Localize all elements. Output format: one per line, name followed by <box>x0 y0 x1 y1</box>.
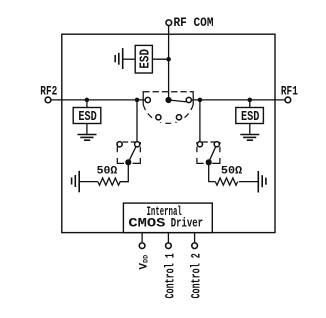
left shunt switch dashed box <box>117 142 140 163</box>
wire: RF COM vertical from terminal to series switch pole <box>168 25 170 100</box>
ESD block top (rotated) <box>135 45 153 73</box>
wire: Control 2 stub <box>194 233 196 243</box>
wire: left ESD box down to ground <box>86 123 88 134</box>
svg-text:CMOS: CMOS <box>128 216 165 231</box>
RF COM terminal <box>166 20 172 26</box>
wire: left shunt pole down then to resistor <box>121 162 128 181</box>
wire: top ESD to ground <box>123 58 136 60</box>
right shunt pole dot <box>206 159 212 165</box>
series switch spare contact lower-left <box>153 112 164 123</box>
wire: right shunt drop from RF1 line <box>199 100 201 144</box>
left shunt switch blade (closed to RF2 throw) <box>128 145 136 162</box>
wire: left shunt drop from RF2 line <box>136 100 138 144</box>
svg-text:RF2: RF2 <box>40 84 57 99</box>
svg-text:ESD: ESD <box>241 109 259 125</box>
series switch throw contact left (RF2) <box>145 97 150 102</box>
wire: top ESD to RF COM line <box>152 58 168 60</box>
svg-text:50Ω: 50Ω <box>221 166 243 178</box>
junction dot on RF1 line at right ESD <box>248 98 253 103</box>
VDD terminal <box>139 243 145 249</box>
wire: RF1 junction down to right ESD box <box>249 100 251 108</box>
ground (below right ESD) <box>240 135 259 141</box>
wire: right resistor to ground <box>239 181 258 183</box>
series switch spare contact lower-right <box>174 112 185 123</box>
svg-text:Control 2: Control 2 <box>189 253 204 298</box>
ground (sideways, top-left of top ESD) <box>115 48 123 69</box>
svg-text:50Ω: 50Ω <box>97 166 118 178</box>
wire: RF2 junction down to left ESD box <box>86 100 88 108</box>
wire: Control 1 stub <box>167 233 169 243</box>
ground (sideways, right of right 50ohm resistor) <box>258 171 266 193</box>
ground (sideways, left of left 50ohm resistor) <box>72 171 80 193</box>
Control 1 terminal <box>166 243 172 249</box>
wire: RF2 horizontal line <box>51 99 146 101</box>
svg-text:ESD: ESD <box>138 49 154 69</box>
RF2 terminal <box>45 97 51 103</box>
left shunt pole dot <box>125 159 131 165</box>
ESD block right <box>236 108 264 125</box>
Internal CMOS Driver block <box>123 203 212 233</box>
svg-text:Driver: Driver <box>171 216 203 231</box>
junction dot on RF COM line at top ESD <box>166 57 171 62</box>
ground (below left ESD) <box>78 135 97 141</box>
svg-text:Control 1: Control 1 <box>163 253 178 298</box>
right shunt switch blade (open throw) <box>209 145 217 162</box>
series switch dashed enclosure <box>143 91 193 123</box>
series switch pole dot <box>165 97 171 103</box>
right shunt contact right <box>214 142 219 147</box>
wire: RF1 horizontal line <box>191 99 286 101</box>
RF1 terminal <box>285 97 291 103</box>
resistor R2 50ohm right <box>215 178 237 185</box>
Control 2 terminal <box>192 243 198 249</box>
svg-text:ESD: ESD <box>78 109 96 125</box>
wire: left resistor to ground <box>79 181 98 183</box>
wire: VDD stub <box>141 233 143 243</box>
wire: right shunt pole down then to resistor <box>209 162 216 181</box>
svg-text:RF1: RF1 <box>281 84 298 99</box>
right shunt contact left <box>197 142 202 147</box>
junction dot on RF1 line at series throw <box>198 98 203 103</box>
series switch blade (pole to RF1 throw) <box>169 100 188 102</box>
series switch throw contact right (RF1) <box>186 97 191 102</box>
junction dot on RF2 line at left ESD <box>85 98 90 103</box>
wire: right ESD box down to ground <box>249 123 251 134</box>
left shunt contact left <box>117 142 122 147</box>
junction dot on RF2 line at shunt drop <box>135 98 140 103</box>
right shunt switch dashed box <box>197 142 220 163</box>
resistor R1 50ohm left <box>98 178 129 185</box>
ESD block left <box>73 108 101 125</box>
left shunt contact right <box>135 142 140 147</box>
outer block boundary box <box>62 34 275 232</box>
svg-text:RF COM: RF COM <box>174 15 214 30</box>
